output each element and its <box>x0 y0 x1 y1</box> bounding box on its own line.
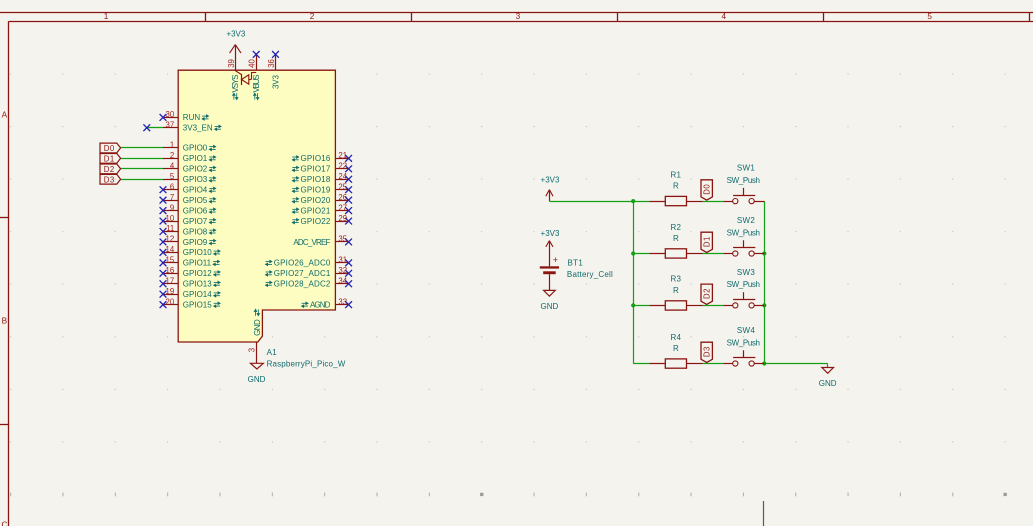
svg-text:19: 19 <box>166 287 175 296</box>
svg-text:GPIO16: GPIO16 <box>300 154 330 163</box>
svg-text:GND: GND <box>248 375 266 384</box>
svg-text:GND: GND <box>541 302 559 311</box>
svg-text:GPIO9: GPIO9 <box>183 238 208 247</box>
svg-text:36: 36 <box>267 59 276 68</box>
svg-text:20: 20 <box>166 297 175 306</box>
svg-text:39: 39 <box>227 59 236 68</box>
svg-text:GPIO2: GPIO2 <box>183 165 208 174</box>
svg-text:C: C <box>1 520 7 526</box>
svg-text:R4: R4 <box>670 333 681 342</box>
svg-text:D0: D0 <box>104 144 115 153</box>
svg-text:SW_Push: SW_Push <box>727 338 760 347</box>
svg-text:15: 15 <box>166 256 175 265</box>
svg-text:D1: D1 <box>702 236 711 247</box>
svg-text:A: A <box>2 110 8 119</box>
svg-text:GPIO20: GPIO20 <box>300 196 330 205</box>
svg-text:GPIO19: GPIO19 <box>300 186 330 195</box>
svg-text:GPIO5: GPIO5 <box>183 196 208 205</box>
svg-text:GND: GND <box>253 319 262 336</box>
svg-text:GPIO6: GPIO6 <box>183 206 208 215</box>
svg-text:GPIO4: GPIO4 <box>183 186 208 195</box>
svg-text:17: 17 <box>166 276 175 285</box>
svg-text:D0: D0 <box>702 184 711 195</box>
svg-text:11: 11 <box>166 224 174 233</box>
svg-text:4: 4 <box>722 12 727 21</box>
svg-text:B: B <box>2 317 8 326</box>
svg-text:SW3: SW3 <box>737 268 755 277</box>
svg-text:GPIO21: GPIO21 <box>300 206 330 215</box>
svg-text:GPIO18: GPIO18 <box>300 175 330 184</box>
svg-text:R1: R1 <box>670 170 681 179</box>
svg-text:BT1: BT1 <box>568 258 584 267</box>
svg-text:R: R <box>673 234 679 243</box>
svg-text:SW_Push: SW_Push <box>727 176 760 185</box>
svg-text:7: 7 <box>170 193 174 202</box>
svg-text:D1: D1 <box>104 154 115 163</box>
svg-text:R2: R2 <box>670 223 681 232</box>
svg-text:GPIO11: GPIO11 <box>183 259 212 268</box>
svg-text:RUN: RUN <box>183 113 201 122</box>
svg-text:VSYS: VSYS <box>231 74 240 92</box>
svg-text:GPIO10: GPIO10 <box>183 248 212 257</box>
svg-text:+: + <box>553 255 558 265</box>
svg-text:R: R <box>673 286 679 295</box>
svg-text:R3: R3 <box>670 275 681 284</box>
svg-text:12: 12 <box>166 235 175 244</box>
svg-text:GPIO15: GPIO15 <box>183 300 212 309</box>
svg-text:GPIO14: GPIO14 <box>183 290 212 299</box>
svg-text:40: 40 <box>248 58 257 67</box>
svg-text:GPIO28_ADC2: GPIO28_ADC2 <box>274 280 331 289</box>
svg-text:10: 10 <box>166 214 175 223</box>
svg-text:5: 5 <box>170 172 175 181</box>
svg-text:GPIO22: GPIO22 <box>300 217 330 226</box>
svg-text:30: 30 <box>166 110 175 119</box>
svg-text:3V3_EN: 3V3_EN <box>183 124 213 133</box>
svg-text:GPIO7: GPIO7 <box>183 217 208 226</box>
svg-text:GPIO0: GPIO0 <box>183 144 208 153</box>
svg-text:GPIO26_ADC0: GPIO26_ADC0 <box>274 259 331 268</box>
svg-text:VBUS: VBUS <box>252 74 261 92</box>
svg-text:3V3: 3V3 <box>271 75 280 89</box>
svg-text:SW1: SW1 <box>737 164 755 173</box>
svg-text:RaspberryPi_Pico_W: RaspberryPi_Pico_W <box>267 360 346 369</box>
svg-text:D2: D2 <box>104 165 115 174</box>
svg-text:16: 16 <box>166 266 175 275</box>
svg-text:1: 1 <box>170 141 174 150</box>
svg-text:AGND: AGND <box>310 300 331 309</box>
svg-text:R: R <box>673 344 679 353</box>
svg-text:GPIO17: GPIO17 <box>300 165 330 174</box>
svg-text:9: 9 <box>170 203 174 212</box>
svg-text:D3: D3 <box>104 175 115 184</box>
svg-text:3: 3 <box>248 348 257 352</box>
svg-text:A1: A1 <box>267 348 278 357</box>
svg-text:+3V3: +3V3 <box>541 175 560 184</box>
svg-text:14: 14 <box>166 245 175 254</box>
svg-text:4: 4 <box>170 162 175 171</box>
svg-text:+3V3: +3V3 <box>226 30 245 39</box>
svg-text:GPIO27_ADC1: GPIO27_ADC1 <box>274 269 331 278</box>
svg-text:ADC_VREF: ADC_VREF <box>293 238 330 247</box>
svg-text:5: 5 <box>927 12 932 21</box>
svg-text:R: R <box>673 182 679 191</box>
svg-text:D2: D2 <box>702 288 711 299</box>
svg-text:6: 6 <box>170 182 174 191</box>
svg-text:GPIO12: GPIO12 <box>183 269 212 278</box>
svg-text:D3: D3 <box>702 346 711 357</box>
svg-text:GPIO1: GPIO1 <box>183 154 208 163</box>
svg-text:GND: GND <box>819 379 837 388</box>
svg-text:2: 2 <box>310 12 315 21</box>
svg-text:37: 37 <box>166 120 175 129</box>
svg-text:SW_Push: SW_Push <box>727 280 760 289</box>
svg-text:SW2: SW2 <box>737 216 755 225</box>
svg-text:+3V3: +3V3 <box>541 229 560 238</box>
svg-text:GPIO8: GPIO8 <box>183 227 208 236</box>
svg-text:SW4: SW4 <box>737 326 755 335</box>
svg-text:3: 3 <box>516 12 521 21</box>
svg-text:1: 1 <box>104 12 109 21</box>
svg-text:Battery_Cell: Battery_Cell <box>567 270 613 279</box>
svg-text:GPIO3: GPIO3 <box>183 175 208 184</box>
svg-text:GPIO13: GPIO13 <box>183 280 212 289</box>
svg-text:SW_Push: SW_Push <box>727 228 760 237</box>
svg-text:2: 2 <box>170 151 174 160</box>
